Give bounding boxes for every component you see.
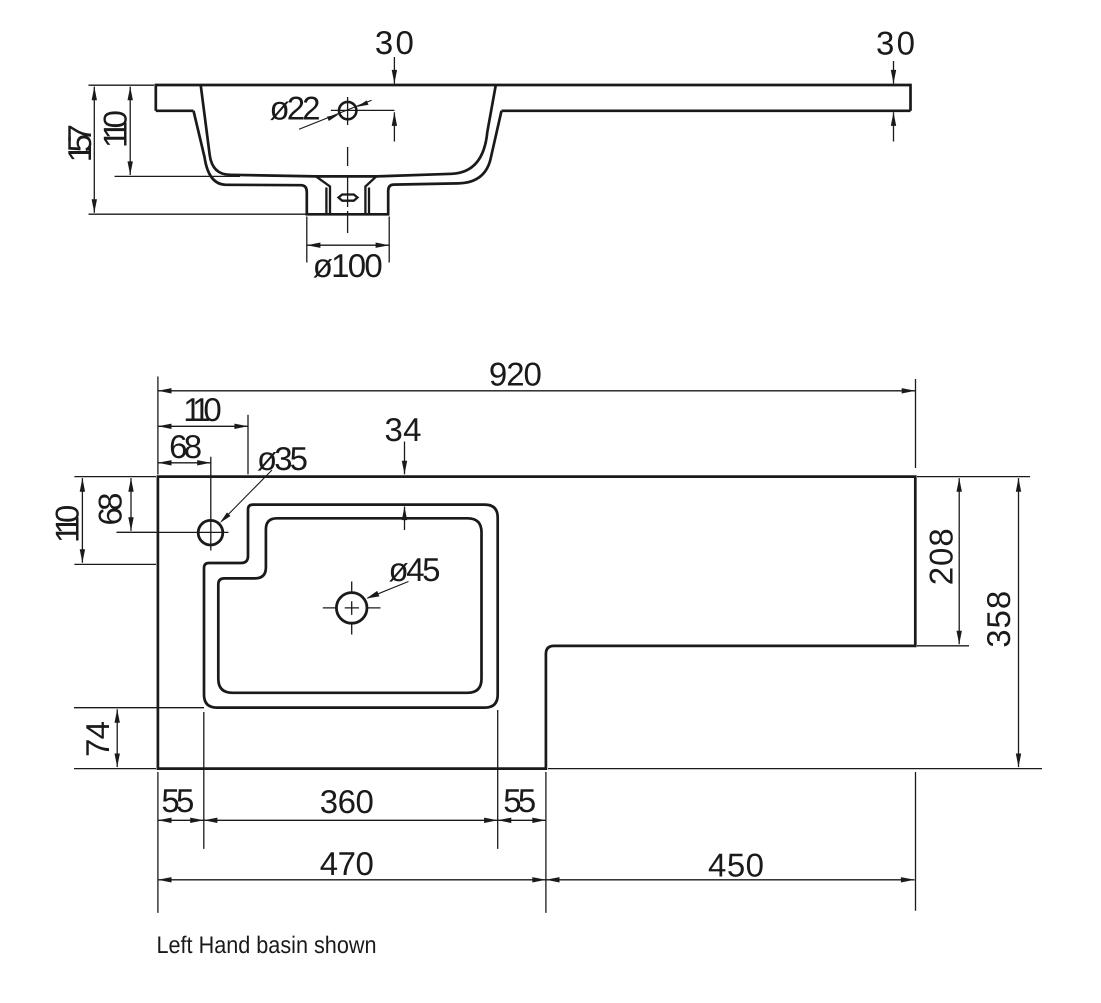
svg-text:55: 55: [503, 782, 536, 819]
dimension 157 extension line top: [89, 84, 155, 86]
dimension 360 line: [204, 819, 498, 821]
dimension 74 top extension line: [74, 707, 204, 709]
left dimensions top extension line: [74, 476, 156, 478]
dimension 110 side extension line bottom: [115, 175, 241, 177]
leader arrowhead ø45: [366, 591, 379, 599]
side view: tap hole horizontal centreline: [331, 109, 395, 111]
side view: slab underside left segment: [156, 109, 194, 112]
plan view: L-shaped basin outline: [158, 477, 915, 769]
side view: basin bowl inner wall and floor: [201, 85, 496, 176]
dimension 55 left line: [158, 819, 204, 821]
bottom extension line at rim left edge x=203.8: [203, 712, 205, 849]
dimension 208 top extension line: [917, 476, 1030, 478]
bottom extension line at rim right edge x=497.7: [497, 710, 499, 849]
side view: tap hole circle: [339, 102, 356, 119]
side view: slab left end cap: [154, 84, 157, 111]
dimension 110 side line: [129, 87, 131, 175]
dimension 68 left extension line: [117, 531, 157, 533]
dimension ø100 right extension line: [388, 217, 390, 263]
leader line for dimension ø45: [368, 582, 409, 599]
svg-text:110: 110: [183, 391, 222, 428]
side view: waste trap bottom: [306, 213, 390, 216]
svg-text:110: 110: [48, 505, 85, 543]
dimension 208 line: [958, 478, 960, 644]
dimension 110 top line: [158, 425, 248, 427]
dimension 450 line: [546, 879, 915, 881]
leader line for dimension ø22: [299, 100, 372, 129]
svg-text:ø45: ø45: [389, 551, 441, 588]
svg-text:34: 34: [385, 411, 422, 448]
dimension 74 bottom extension line: [74, 768, 156, 770]
svg-text:68: 68: [169, 428, 202, 465]
side view: waste funnel right slope and inner wall: [365, 176, 376, 213]
svg-text:55: 55: [161, 782, 194, 819]
plan view: tap hole vertical centreline / 68 extension: [210, 457, 212, 551]
leader arrowhead upper-right ø22: [357, 100, 369, 107]
dimension 358 bottom extension line: [548, 768, 1042, 770]
dimension 68 left line: [130, 478, 132, 531]
svg-text:Left Hand basin shown: Left Hand basin shown: [157, 932, 377, 959]
dimension 358 line: [1018, 478, 1020, 767]
svg-text:470: 470: [320, 845, 374, 882]
svg-text:358: 358: [980, 591, 1017, 648]
dimension 208 bottom extension line: [917, 645, 969, 647]
side view: worktop slab top surface: [156, 84, 911, 87]
dimension 34 upper witness segment with down arrow: [404, 442, 406, 475]
leader arrowhead ø35: [220, 512, 231, 523]
dimension 110 left line: [81, 478, 83, 563]
dimension ø100 left extension line: [306, 217, 308, 263]
plan view: waste hole horizontal centreline: [323, 607, 381, 609]
dimension 157 extension line bottom: [89, 213, 307, 215]
svg-text:157: 157: [61, 124, 98, 162]
dimension 157 line: [93, 87, 95, 213]
bottom extension line at step edge x=545.9: [545, 772, 547, 913]
side view: waste slot: [339, 195, 358, 201]
svg-text:920: 920: [489, 356, 542, 393]
bottom extension line at plan right edge: [915, 772, 917, 911]
bottom extension line at plan left edge: [157, 772, 159, 913]
svg-text:68: 68: [91, 493, 128, 526]
dimension 470 line: [158, 879, 546, 881]
side view: waste funnel left slope and inner wall: [316, 176, 330, 213]
plan view: tap hole circle ø35: [198, 520, 223, 545]
svg-text:ø35: ø35: [257, 440, 308, 477]
svg-text:208: 208: [923, 528, 960, 585]
side view: basin bowl outer wall right: [388, 111, 501, 214]
svg-text:74: 74: [79, 721, 116, 757]
svg-text:ø100: ø100: [313, 247, 383, 284]
dimension 30 right: lower witness segment with up arrow: [893, 112, 895, 141]
dimension 110 top right extension: [247, 415, 249, 475]
side view: slab right end cap: [909, 84, 912, 111]
side view: slab underside right segment: [502, 109, 911, 112]
svg-text:30: 30: [375, 24, 414, 61]
svg-text:30: 30: [876, 25, 915, 62]
dimension 920 right extension: [915, 379, 917, 468]
plan view: waste hole circle ø45: [336, 593, 367, 624]
dimension 110 left bottom extension line: [74, 563, 156, 565]
side view: vertical centreline through tap hole and waste: [347, 97, 349, 233]
leader arrowhead lower-left ø22: [327, 115, 339, 122]
side view: basin bowl outer wall left: [194, 111, 307, 214]
dimension 68 top line: [158, 462, 211, 464]
plan view: basin bowl inner edge: [218, 518, 481, 693]
dimension 74 line: [116, 709, 118, 767]
dimension 30 left: upper witness segment with down arrow: [393, 57, 395, 84]
dimension 30 right: upper witness segment with down arrow: [893, 61, 895, 84]
plan view: tap hole horizontal centreline: [117, 531, 229, 533]
dimension ø100 line: [307, 244, 389, 246]
dimension 34 lower witness segment with up arrow: [404, 507, 406, 531]
dimension 55 right line: [498, 819, 546, 821]
dimension 920 left extension (plan left edge extended up): [157, 377, 159, 475]
svg-text:110: 110: [96, 110, 133, 148]
plan view: basin rim outer edge: [204, 505, 498, 708]
svg-text:ø22: ø22: [270, 90, 321, 127]
svg-text:450: 450: [708, 847, 764, 884]
leader line for dimension ø35: [222, 470, 272, 521]
dimension 30 left: lower witness segment with up arrow: [393, 112, 395, 141]
plan view: waste hole vertical centreline: [351, 582, 353, 635]
svg-text:360: 360: [320, 783, 374, 820]
dimension 920 line: [158, 390, 915, 392]
